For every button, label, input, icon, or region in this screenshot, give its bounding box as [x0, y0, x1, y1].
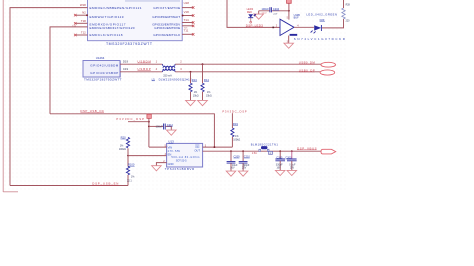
no-connect X on V18	[192, 14, 195, 17]
wire branch to R20	[128, 121, 149, 123]
svg-text:BUF: BUF	[294, 17, 299, 20]
junction dot N2	[86, 14, 88, 16]
svg-text:T14: T14	[184, 18, 189, 22]
wire P3V3DC_DSP vertical to VIN	[148, 118, 150, 147]
svg-text:OC: OC	[195, 145, 199, 149]
resistor R100	[126, 156, 135, 186]
wire stub T11	[182, 33, 193, 35]
svg-text:U13: U13	[168, 140, 174, 144]
svg-text:RED: RED	[247, 11, 252, 14]
IC U13 TPS2051B box	[167, 140, 203, 167]
junction dot R20 branch	[148, 121, 150, 123]
wire stub T12	[75, 34, 87, 36]
svg-text:C19: C19	[123, 67, 129, 71]
svg-text:25V: 25V	[273, 14, 278, 16]
svg-text:EMDVE/USBDFLT/GPIO120: EMDVE/USBDFLT/GPIO120	[90, 26, 135, 30]
svg-text:GND: GND	[168, 162, 174, 166]
junction dot C212 branch	[148, 126, 150, 128]
svg-text:TPS2051BDBVR: TPS2051BDBVR	[165, 167, 195, 171]
svg-text:SN74LVC1G07DCKR: SN74LVC1G07DCKR	[294, 37, 345, 41]
svg-text:GPIO43/USBDP: GPIO43/USBDP	[90, 71, 118, 75]
svg-text:SOT-23-5: SOT-23-5	[176, 159, 187, 162]
svg-text:100nF: 100nF	[261, 7, 269, 11]
wire USBDM to choke	[120, 63, 162, 65]
svg-text:25V: 25V	[242, 166, 247, 169]
wire resistor R28 to top	[343, 0, 345, 8]
svg-text:16V: 16V	[230, 166, 235, 169]
MCU U1 box (TMS320F28379DZWT)	[88, 0, 183, 41]
capacitor C210	[239, 151, 251, 171]
junction dot C203	[291, 150, 293, 152]
svg-text:100kΩ: 100kΩ	[233, 139, 240, 142]
no-connect X on U18	[192, 6, 195, 9]
svg-text:U1264: U1264	[96, 56, 105, 60]
svg-text:U18: U18	[184, 1, 190, 5]
svg-text:TMS320F28379DZWTT: TMS320F28379DZWTT	[106, 42, 153, 46]
ground for C212	[167, 130, 177, 135]
svg-text:T12: T12	[81, 30, 86, 34]
wire D29 to resistor R28	[322, 19, 344, 28]
svg-text:15kΩ: 15kΩ	[193, 94, 199, 97]
resistor R20	[119, 136, 130, 156]
svg-text:BLM18SG221TN1: BLM18SG221TN1	[251, 143, 279, 147]
wire DSP_USB_EN	[10, 185, 128, 187]
wire net DSP_LED3	[227, 0, 280, 27]
resistor R14	[201, 64, 212, 100]
no-connect X on T15 right	[192, 25, 195, 28]
wire stub T14	[182, 22, 193, 24]
svg-text:GPIO42/USBDM: GPIO42/USBDM	[90, 63, 119, 67]
junction dot OC vertical	[213, 146, 215, 148]
no-connect X on T12	[74, 34, 77, 36]
ground for C203	[287, 170, 297, 175]
no-connect X on T11	[192, 33, 195, 36]
wire EN node to U13 pin 4	[128, 155, 167, 157]
svg-text:N2: N2	[82, 11, 86, 15]
power square P3V3DC_DSP left	[147, 114, 151, 118]
capacitor C205	[275, 151, 285, 170]
svg-text:GPIO31/EMTDVE: GPIO31/EMTDVE	[154, 26, 180, 30]
resistor R13	[189, 72, 199, 101]
wire OC net U13 pin3 to R19	[203, 146, 233, 148]
common-mode choke L5	[152, 60, 192, 82]
wire stub U18	[182, 7, 193, 9]
wire W18 to vertical bus	[10, 8, 88, 186]
svg-text:T18: T18	[81, 19, 86, 23]
wire stub T18	[75, 22, 87, 24]
svg-text:0.1uF: 0.1uF	[289, 164, 296, 167]
junction dot VCC cap	[288, 10, 290, 12]
IC U1264 box (TMS320F28379D USB pins)	[83, 61, 121, 78]
svg-text:GPIO37/EMTOE: GPIO37/EMTOE	[153, 6, 180, 10]
ground for U13	[152, 166, 162, 171]
wire choke to USB0_DP port	[175, 71, 320, 73]
svg-text:EMDWAIT/GPIO119: EMDWAIT/GPIO119	[90, 15, 124, 19]
wire stub T15 right	[182, 25, 193, 27]
capacitor C204	[259, 7, 289, 16]
power square VCC buffer	[287, 0, 292, 3]
no-connect X on T14	[192, 21, 195, 24]
svg-text:15kΩ: 15kΩ	[206, 94, 212, 97]
ground for C204	[254, 14, 264, 19]
junction dot R14 top	[202, 63, 204, 65]
LED LED3 red	[247, 7, 256, 23]
wire stub V18	[182, 15, 193, 17]
svg-text:16V: 16V	[277, 167, 282, 169]
junction dot C210	[242, 150, 244, 152]
junction dot EN node	[127, 155, 129, 157]
port USB0_DM	[321, 62, 336, 67]
svg-text:TMS320F28379DZWTT: TMS320F28379DZWTT	[84, 78, 122, 82]
junction dot R13 top	[190, 71, 192, 73]
svg-text:25V: 25V	[290, 167, 295, 169]
wire stub N2	[75, 14, 87, 16]
svg-text:W18: W18	[80, 3, 86, 7]
svg-text:OUT: OUT	[194, 149, 200, 153]
no-connect X on T18	[74, 22, 77, 25]
wire U13 VIN pin	[149, 146, 167, 148]
wire buffer pin 3 to ground	[288, 36, 290, 44]
wire VCC to buffer pin 5	[288, 3, 290, 19]
svg-text:GPIO35/EMTWAIT: GPIO35/EMTWAIT	[152, 15, 180, 19]
svg-text:VIN: VIN	[168, 146, 173, 150]
svg-text:330pF: 330pF	[276, 164, 283, 167]
junction dot V18	[182, 15, 184, 17]
svg-text:R28: R28	[346, 5, 351, 7]
ground buffer	[284, 43, 294, 48]
resistor R19	[231, 113, 241, 147]
wire OUT net U13 to DSP_VBUS port	[203, 150, 322, 152]
capacitor C209	[227, 151, 240, 171]
wire T15 long net to vertical bus	[50, 27, 88, 114]
junction dot C205	[279, 150, 281, 152]
svg-text:P3V3DC_DSP: P3V3DC_DSP	[222, 110, 246, 114]
svg-text:EMDCLK/GPIO118: EMDCLK/GPIO118	[90, 33, 123, 37]
capacitor C212	[149, 124, 174, 131]
LED D29 green	[306, 12, 337, 33]
no-connect X on N2	[74, 14, 77, 17]
wire buffer output to D29	[294, 26, 314, 28]
resistor R28	[342, 5, 351, 23]
svg-text:EMDOE/USBBEPEN/GPIO121: EMDOE/USBBEPEN/GPIO121	[90, 6, 142, 10]
wire DSP_USB_OC	[50, 114, 214, 147]
ground for C209	[226, 171, 236, 176]
svg-text:V18: V18	[184, 10, 190, 14]
ground for R14	[198, 100, 208, 105]
svg-text:1.5A: 1.5A	[252, 152, 257, 155]
svg-text:LED_0402_GREEN: LED_0402_GREEN	[306, 12, 337, 16]
svg-text:DLW21SN900SQ2#12: DLW21SN900SQ2#12	[159, 77, 192, 81]
ground for R13	[186, 100, 196, 105]
junction dot buffer input	[272, 27, 274, 29]
wire USBDP to choke	[120, 71, 162, 73]
svg-text:22.1: 22.1	[127, 180, 132, 183]
svg-text:100nF: 100nF	[156, 126, 164, 129]
svg-text:P3V3DC_DSP: P3V3DC_DSP	[116, 117, 144, 121]
ground for C210	[238, 171, 248, 176]
capacitor C203	[285, 151, 296, 170]
wire choke to USB0_DM port	[175, 63, 321, 65]
junction dot C209	[230, 150, 232, 152]
op-amp buffer U12B SN74LVC1G07	[280, 14, 300, 35]
svg-text:T11: T11	[184, 29, 189, 33]
wire U13 GND pin to ground	[156, 163, 166, 166]
svg-text:100kΩ: 100kΩ	[119, 148, 126, 151]
svg-text:D19: D19	[123, 60, 129, 64]
blue bar under buffer	[290, 34, 298, 36]
ground for C205	[275, 170, 285, 175]
port USB0_DP	[320, 70, 335, 75]
svg-text:GPIO30/EMTCLK: GPIO30/EMTCLK	[153, 33, 181, 37]
port DSP_VBUS	[321, 149, 336, 154]
ferrite bead L6 BLM18SG221TN1	[251, 143, 279, 155]
